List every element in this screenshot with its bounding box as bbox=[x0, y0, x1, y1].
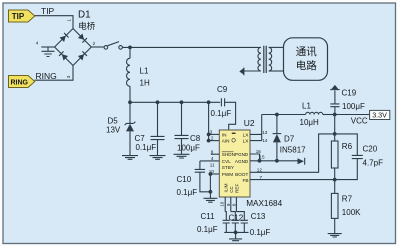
svg-text:4.7pF: 4.7pF bbox=[363, 159, 384, 168]
svg-text:D7: D7 bbox=[284, 135, 295, 144]
wire right coil bottom to box bbox=[269, 70, 284, 72]
wire BOOT bbox=[250, 134, 335, 172]
bridge D1 bbox=[55, 29, 92, 66]
svg-text:MAX1684: MAX1684 bbox=[246, 199, 282, 208]
capacitor C19 bbox=[330, 91, 339, 115]
wire R7 bottom bbox=[334, 218, 336, 233]
wire pin4 bbox=[41, 46, 54, 48]
resistor R7 bbox=[331, 193, 338, 218]
bus wire bbox=[130, 101, 220, 103]
svg-text:LX: LX bbox=[243, 139, 249, 144]
diode BR bbox=[78, 51, 87, 60]
wire SHDN stub bbox=[211, 153, 220, 155]
diode TR bbox=[78, 34, 87, 43]
svg-text:IN5817: IN5817 bbox=[280, 146, 306, 155]
svg-text:L1: L1 bbox=[302, 102, 311, 111]
svg-text:C7: C7 bbox=[135, 134, 146, 143]
capacitor C9 bbox=[221, 98, 235, 130]
box 通讯电路 bbox=[284, 38, 328, 81]
ground pin4 bbox=[42, 47, 55, 57]
IC pin names left bbox=[222, 132, 235, 177]
wire RING to bridge bbox=[35, 66, 74, 81]
svg-text:13V: 13V bbox=[106, 126, 121, 135]
IC pin names right bbox=[235, 132, 249, 184]
svg-text:RING: RING bbox=[11, 79, 29, 86]
svg-text:13: 13 bbox=[262, 130, 268, 135]
svg-text:3.3V: 3.3V bbox=[372, 111, 387, 120]
SHDN overline bbox=[222, 151, 234, 153]
svg-text:0.1μF: 0.1μF bbox=[136, 143, 157, 152]
svg-text:CVL: CVL bbox=[222, 159, 231, 164]
wire switch to transformer bbox=[122, 46, 261, 48]
node BOOT/R6/C20 bbox=[333, 132, 337, 136]
svg-text:D1: D1 bbox=[78, 10, 91, 21]
svg-text:RING: RING bbox=[36, 71, 57, 81]
wire LX stubs bbox=[250, 134, 262, 140]
ground C7 bbox=[150, 156, 166, 160]
svg-text:4: 4 bbox=[36, 41, 39, 46]
svg-text:通讯: 通讯 bbox=[296, 45, 317, 58]
svg-text:1: 1 bbox=[67, 19, 72, 22]
svg-text:FB: FB bbox=[242, 178, 248, 184]
capacitor C12 bbox=[231, 212, 239, 233]
svg-text:电桥: 电桥 bbox=[78, 21, 96, 31]
transformer T1 left coil bbox=[258, 47, 261, 71]
svg-text:L1: L1 bbox=[140, 67, 149, 76]
svg-text:LX: LX bbox=[243, 132, 249, 137]
node VCC bbox=[333, 113, 337, 117]
svg-text:14: 14 bbox=[262, 138, 268, 143]
wire PWM stub bbox=[210, 173, 219, 175]
wire R6 bottom bbox=[334, 168, 336, 193]
svg-text:C20: C20 bbox=[363, 145, 378, 154]
arrow right bbox=[298, 158, 305, 165]
ground C8 bbox=[174, 154, 190, 158]
svg-text:0.1μF: 0.1μF bbox=[177, 188, 198, 197]
diode BL bbox=[59, 51, 68, 60]
svg-text:REF: REF bbox=[234, 184, 239, 193]
node C9/IN bbox=[207, 100, 211, 104]
svg-text:2: 2 bbox=[93, 41, 96, 46]
wire LX vertical to rail bbox=[261, 115, 263, 141]
pin numbers left bbox=[209, 129, 215, 174]
wire bus to IN/AIN bbox=[208, 102, 210, 140]
capacitor C8 bbox=[175, 102, 189, 154]
node D7 anode bbox=[275, 159, 279, 163]
wire FB bbox=[250, 179, 335, 181]
capacitor C13 bbox=[236, 212, 248, 233]
svg-text:BOOT: BOOT bbox=[235, 172, 248, 177]
svg-text:R7: R7 bbox=[342, 195, 353, 204]
svg-text:R6: R6 bbox=[342, 142, 353, 151]
arrow left bbox=[239, 68, 244, 76]
svg-text:C9: C9 bbox=[217, 85, 228, 94]
svg-text:C8: C8 bbox=[190, 134, 201, 143]
wire pin2 to switch bbox=[91, 46, 104, 48]
ground C10 bbox=[203, 192, 217, 202]
node L1 top bbox=[128, 46, 132, 50]
capacitor C7 bbox=[151, 102, 165, 155]
IC bottom stubs bbox=[225, 197, 236, 212]
svg-text:100μF: 100μF bbox=[177, 143, 200, 152]
svg-text:10: 10 bbox=[220, 201, 225, 207]
svg-text:PWM: PWM bbox=[222, 172, 233, 177]
svg-text:ILIM: ILIM bbox=[224, 183, 229, 192]
wire PWM down bbox=[209, 174, 211, 192]
svg-text:100μF: 100μF bbox=[342, 102, 365, 111]
svg-text:TIP: TIP bbox=[12, 12, 25, 21]
svg-text:C10: C10 bbox=[177, 175, 192, 184]
inductor L1 1H bbox=[126, 47, 130, 102]
svg-text:100K: 100K bbox=[342, 208, 361, 217]
ground R7 bbox=[328, 234, 342, 237]
capacitor C11 bbox=[223, 212, 230, 233]
wire left coil bottom bbox=[244, 70, 261, 72]
svg-text:C12: C12 bbox=[229, 214, 244, 223]
wire VCC down to R6 bbox=[334, 115, 336, 142]
wire L1 to VCC node bbox=[323, 114, 335, 116]
node bus/L1/D5 bbox=[128, 100, 132, 104]
svg-text:AGND: AGND bbox=[235, 159, 249, 164]
svg-text:IN: IN bbox=[222, 132, 227, 137]
node FB/R7 bbox=[333, 178, 337, 182]
svg-text:C11: C11 bbox=[201, 212, 216, 221]
node IN bbox=[207, 133, 211, 137]
wire VCC to 3.3V bbox=[335, 114, 370, 116]
svg-text:4: 4 bbox=[211, 156, 214, 161]
node C7 bbox=[156, 100, 160, 104]
VCC arrow symbol bbox=[330, 85, 339, 90]
svg-text:10μH: 10μH bbox=[300, 118, 320, 127]
svg-text:STBY: STBY bbox=[222, 165, 234, 170]
svg-text:VCC: VCC bbox=[351, 116, 368, 125]
svg-text:0.1μF: 0.1μF bbox=[211, 109, 232, 118]
svg-text:0.1μF: 0.1μF bbox=[250, 228, 271, 237]
svg-text:3: 3 bbox=[210, 129, 213, 134]
wire PGND stub bbox=[250, 154, 260, 161]
rail LX to VCC bbox=[262, 114, 306, 116]
wire AIN stub bbox=[209, 140, 220, 142]
svg-text:3: 3 bbox=[66, 75, 71, 78]
svg-text:PGND: PGND bbox=[235, 152, 249, 157]
ground rail bbox=[229, 232, 242, 240]
3.3V box bbox=[370, 110, 390, 119]
capacitor C10 bbox=[195, 161, 211, 192]
inductor L1 10uH bbox=[306, 112, 323, 114]
node rail bbox=[234, 231, 238, 235]
node PWM bbox=[209, 172, 213, 176]
switch S1 bbox=[104, 42, 122, 50]
TIP tag bbox=[9, 10, 35, 22]
node C8 bbox=[180, 100, 184, 104]
wire IN stub bbox=[209, 133, 220, 135]
node C10/PWM bbox=[209, 190, 213, 194]
svg-text:CC: CC bbox=[229, 185, 234, 192]
diode D7 bbox=[273, 115, 282, 161]
svg-text:C13: C13 bbox=[251, 212, 266, 221]
svg-text:SHDN: SHDN bbox=[222, 152, 235, 157]
ground D5 bbox=[122, 156, 138, 160]
svg-text:电路: 电路 bbox=[296, 59, 317, 72]
node PGND bbox=[258, 159, 262, 163]
wire right coil top to box bbox=[269, 46, 284, 48]
svg-text:AIN: AIN bbox=[222, 139, 230, 144]
capacitor C20 bbox=[335, 134, 363, 180]
RING tag bbox=[9, 76, 35, 88]
svg-text:D5: D5 bbox=[108, 116, 119, 125]
transformer right coil bbox=[269, 47, 272, 71]
svg-text:0.1μF: 0.1μF bbox=[197, 225, 218, 234]
zener D5 bbox=[125, 102, 136, 155]
wire TIP to bridge bbox=[35, 16, 73, 29]
svg-text:11: 11 bbox=[210, 162, 215, 167]
svg-text:2: 2 bbox=[211, 136, 214, 141]
svg-text:U2: U2 bbox=[244, 118, 255, 128]
svg-text:15: 15 bbox=[259, 154, 265, 159]
diode TL bbox=[60, 33, 69, 42]
svg-text:1H: 1H bbox=[140, 79, 150, 88]
IC mid glyphs bbox=[232, 133, 236, 134]
svg-text:C19: C19 bbox=[342, 89, 357, 98]
op IC U2 MAX1684 bbox=[219, 130, 250, 197]
resistor R6 bbox=[331, 141, 338, 168]
caps bottom rail bbox=[224, 231, 248, 233]
node AIN bbox=[207, 139, 211, 143]
pin numbers right bbox=[256, 130, 268, 180]
wire CVL to C10 bbox=[200, 160, 219, 162]
svg-text:TIP: TIP bbox=[41, 6, 55, 16]
wire AGND rail bbox=[250, 160, 298, 162]
node D7 cathode bbox=[275, 113, 279, 117]
IC pin names bottom rotated bbox=[224, 183, 240, 193]
transformer core bbox=[263, 46, 266, 73]
